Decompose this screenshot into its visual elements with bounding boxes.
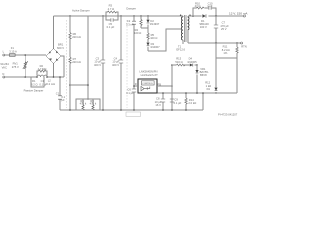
IC U1	[135, 70, 161, 93]
node bus x186	[185, 109, 187, 111]
transformer secondary winding	[188, 16, 190, 43]
resistor R3	[108, 4, 117, 14]
wire IC FB stub	[157, 85, 172, 87]
wire feedback bus	[148, 53, 237, 93]
node damper mid	[69, 84, 71, 86]
svg-text:600 V: 600 V	[57, 46, 64, 50]
node C3 top	[102, 15, 104, 17]
node VR1 bottom	[196, 92, 198, 94]
resistor R5	[147, 33, 158, 43]
svg-text:0.1 µF: 0.1 µF	[174, 101, 182, 105]
label input voltage	[0, 62, 9, 69]
diode D4 bias	[187, 57, 197, 67]
svg-text:275 V: 275 V	[12, 65, 19, 69]
node RV1 top	[24, 54, 26, 56]
svg-text:B6V8: B6V8	[200, 73, 207, 77]
resistor R9	[90, 99, 97, 110]
svg-text:90-264: 90-264	[0, 62, 9, 66]
resistor R7	[69, 57, 81, 110]
node RC loop right	[117, 15, 118, 16]
svg-text:1 nF: 1 nF	[207, 4, 213, 8]
capacitor C5	[107, 18, 115, 29]
wire x88 vertical	[87, 16, 89, 99]
svg-text:0.1 µF: 0.1 µF	[39, 82, 47, 86]
wire clamp to primary	[148, 29, 181, 51]
svg-text:R6: R6	[73, 32, 77, 36]
wire bridge DC+ up	[53, 16, 55, 49]
node riser top	[202, 92, 204, 94]
svg-text:N: N	[2, 72, 4, 76]
svg-text:470 k: 470 k	[80, 102, 87, 106]
capacitor C3a on x60 branch	[56, 77, 66, 110]
fuse F1	[9, 46, 17, 56]
wire secondary return	[188, 42, 240, 44]
bridge rectifier BR1	[46, 43, 64, 64]
terminal L input	[3, 50, 5, 56]
svg-text:0.1 µF: 0.1 µF	[107, 25, 115, 29]
diode D3	[146, 42, 160, 51]
node RV1 bottom	[24, 76, 26, 78]
node bus x70	[69, 109, 71, 111]
node snubber left	[192, 15, 194, 17]
diode D2	[146, 16, 159, 28]
wire bridge bottom to rail	[53, 64, 55, 78]
svg-text:C1: C1	[56, 92, 60, 96]
snubber loop	[193, 8, 216, 16]
wire bottom input rail	[5, 76, 64, 78]
svg-text:220 kΩ: 220 kΩ	[72, 35, 81, 39]
varistor RV1	[12, 55, 28, 77]
svg-text:R7: R7	[73, 57, 77, 61]
svg-text:100 Ω: 100 Ω	[134, 31, 141, 35]
resistor R4	[134, 16, 142, 35]
node C2 top	[133, 15, 135, 17]
svg-text:1N4005: 1N4005	[187, 60, 197, 64]
svg-text:VAC: VAC	[2, 65, 7, 69]
capacitor C3 bulk	[94, 16, 105, 110]
svg-text:C1: C1	[41, 79, 45, 83]
wire x216 sense	[215, 43, 217, 88]
node L2 left	[36, 76, 38, 78]
resistor R1 (passive damper)	[31, 79, 38, 86]
node bus x163	[162, 109, 164, 111]
svg-text:3.15 A: 3.15 A	[9, 49, 17, 53]
svg-text:4.7 Ω: 4.7 Ω	[108, 7, 115, 11]
svg-text:RV1: RV1	[13, 61, 19, 65]
resistor R14	[185, 93, 196, 110]
node D2 top	[147, 15, 149, 17]
node R11 top	[236, 42, 238, 44]
node R4 top	[140, 15, 142, 17]
svg-text:510 Ω: 510 Ω	[175, 60, 182, 64]
svg-text:220 kΩ: 220 kΩ	[72, 60, 81, 64]
svg-text:µF: µF	[61, 98, 65, 102]
node x88 at 99	[87, 98, 89, 100]
snubber capacitor C10	[207, 1, 213, 9]
node R14 top	[185, 92, 187, 94]
svg-text:PI-4723-041207: PI-4723-041207	[218, 113, 238, 117]
svg-text:1N4937: 1N4937	[150, 22, 160, 26]
snubber resistor R10	[195, 1, 205, 9]
node C7 bottom	[215, 42, 217, 44]
zener VR2	[205, 81, 217, 93]
capacitor C9	[170, 98, 182, 105]
node bus x121	[120, 109, 122, 111]
terminal output plus	[243, 15, 245, 17]
svg-text:Passive Damper: Passive Damper	[24, 89, 44, 93]
node zener bottom	[215, 92, 217, 94]
svg-text:Active Damper: Active Damper	[72, 8, 90, 12]
transformer phase dot primary	[180, 15, 181, 16]
terminal N input	[2, 72, 4, 78]
svg-text:470 k: 470 k	[90, 102, 97, 106]
node C6 tap	[133, 85, 135, 87]
wire clamp join	[141, 28, 148, 33]
small box lower left	[126, 112, 141, 116]
dashed boundary active damper	[66, 20, 68, 108]
svg-text:RTN: RTN	[241, 45, 247, 49]
label T1	[176, 44, 185, 51]
wire bottom bus	[60, 109, 203, 111]
svg-text:3.3 nF: 3.3 nF	[126, 22, 134, 26]
svg-text:12 V, 150 mA: 12 V, 150 mA	[229, 12, 248, 16]
resistor R11	[222, 43, 238, 93]
inductor L2	[37, 75, 55, 86]
svg-text:47 Ω: 47 Ω	[195, 4, 201, 8]
dashed boundary active damper right	[126, 20, 128, 108]
diode D1	[199, 14, 209, 29]
svg-text:400 V: 400 V	[112, 63, 119, 67]
active damper RC loop	[106, 12, 118, 20]
terminal RTN	[241, 42, 247, 49]
svg-text:16 V: 16 V	[155, 103, 161, 107]
node bus x103	[102, 109, 104, 111]
transformer phase dot secondary	[189, 15, 190, 16]
svg-text:100 V: 100 V	[200, 25, 207, 29]
resistor R2 (parallel with L2)	[37, 64, 47, 77]
wire ground return riser	[202, 93, 204, 110]
resistor R6	[69, 16, 81, 57]
node bus x172	[171, 109, 173, 111]
capacitor C8	[155, 93, 166, 110]
node D1 right / C7 top	[215, 15, 217, 17]
passive damper loop wires	[31, 77, 44, 87]
transformer primary winding	[181, 16, 183, 44]
resistor R13 bias	[175, 57, 184, 66]
svg-text:25 V: 25 V	[221, 27, 227, 31]
zener VR1	[195, 65, 208, 93]
svg-text:0.1 µF: 0.1 µF	[126, 91, 134, 95]
svg-text:1%: 1%	[223, 51, 227, 55]
resistor R8	[80, 99, 87, 110]
wire damper mid horizontal	[70, 84, 88, 86]
capacitor C4 bulk	[112, 16, 123, 110]
svg-text:Damper: Damper	[126, 6, 136, 10]
bias loop wire	[171, 65, 173, 110]
svg-text:1%: 1%	[206, 87, 210, 91]
svg-text:EF12.6: EF12.6	[176, 48, 185, 52]
capacitor C2	[126, 16, 136, 86]
wire link y58	[216, 57, 237, 59]
svg-text:100 Ω: 100 Ω	[150, 36, 157, 40]
svg-text:2.2 mH: 2.2 mH	[46, 82, 55, 86]
wire bridge AC right	[61, 56, 64, 77]
node R6 top	[69, 15, 71, 17]
node x88 at 85	[87, 84, 89, 86]
wire DC+ top rail	[54, 15, 184, 17]
svg-text:4.7 MΩ: 4.7 MΩ	[38, 67, 47, 71]
svg-text:LinkSwitch-XT: LinkSwitch-XT	[141, 73, 159, 77]
capacitor C6	[126, 86, 136, 110]
node L2 right	[46, 76, 48, 78]
bias line	[172, 64, 197, 66]
node FB x172	[171, 85, 173, 87]
wire top input rail	[5, 54, 46, 56]
wire IC drain stub	[134, 85, 138, 87]
damper frame R8 R9	[76, 99, 100, 110]
node x60 on bottom rail	[59, 76, 61, 78]
svg-text:R1: R1	[32, 79, 36, 83]
node C4 top	[120, 15, 122, 17]
svg-text:D: D	[135, 82, 137, 86]
svg-text:400 V: 400 V	[94, 63, 101, 67]
svg-text:2.0 kΩ: 2.0 kΩ	[188, 101, 196, 105]
svg-text:L2: L2	[48, 79, 51, 83]
capacitor C1 (passive damper)	[39, 79, 47, 86]
svg-text:CONTROL: CONTROL	[142, 83, 153, 85]
svg-text:8.2 Ω: 8.2 Ω	[31, 82, 38, 86]
node bias right	[196, 64, 198, 66]
node bias left	[171, 64, 173, 66]
transformer T1 core	[185, 15, 187, 42]
node RC loop left	[105, 15, 106, 16]
wire secondary top to output	[188, 15, 243, 17]
capacitor C7	[214, 16, 229, 43]
svg-text:1N4007: 1N4007	[150, 45, 160, 49]
node bus x134	[133, 109, 135, 111]
node C8 top	[162, 92, 164, 94]
node bridge bottom rail	[53, 76, 55, 78]
